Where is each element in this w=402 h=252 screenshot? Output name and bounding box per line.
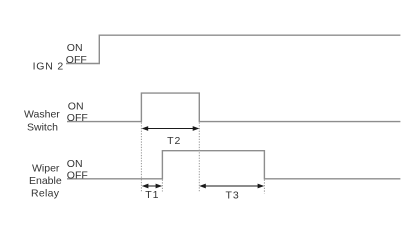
svg-text:Enable: Enable	[29, 175, 62, 187]
svg-text:Relay: Relay	[31, 188, 60, 200]
svg-text:Washer: Washer	[24, 109, 60, 121]
svg-text:IGN 2: IGN 2	[33, 61, 64, 73]
svg-text:Switch: Switch	[27, 122, 58, 134]
svg-text:T2: T2	[167, 135, 181, 147]
svg-text:ON: ON	[67, 158, 83, 170]
svg-text:T1: T1	[145, 189, 159, 201]
svg-text:OFF: OFF	[67, 112, 88, 124]
svg-text:ON: ON	[67, 42, 83, 54]
svg-text:T3: T3	[225, 190, 239, 202]
svg-text:OFF: OFF	[67, 170, 88, 182]
svg-text:OFF: OFF	[66, 54, 87, 66]
svg-text:ON: ON	[68, 101, 84, 113]
svg-text:Wiper: Wiper	[32, 163, 60, 175]
